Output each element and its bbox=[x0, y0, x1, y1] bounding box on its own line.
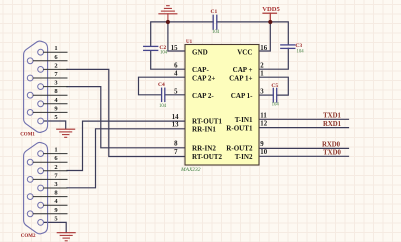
net label TXD0 bbox=[323, 149, 341, 156]
svg-text:T-IN1: T-IN1 bbox=[235, 116, 253, 124]
COM1 pin number 4 bbox=[54, 97, 58, 104]
svg-text:13: 13 bbox=[172, 122, 179, 129]
value C3 104 bbox=[297, 50, 305, 55]
wire U1 pin15 GND to top rail bbox=[168, 22, 185, 51]
COM2 pin number 2 bbox=[54, 164, 57, 171]
COM1 pin number 2 bbox=[54, 62, 57, 69]
COM1 pin number 8 bbox=[54, 88, 58, 95]
wire COM1 pin5 to ground bbox=[44, 121, 66, 129]
svg-text:6: 6 bbox=[174, 63, 178, 70]
svg-text:VCC: VCC bbox=[237, 49, 252, 57]
svg-text:TXD0: TXD0 bbox=[323, 149, 341, 156]
svg-text:VDD5: VDD5 bbox=[262, 6, 280, 13]
COM2 pin number 1 bbox=[54, 147, 57, 154]
COM2 pin number 6 bbox=[54, 155, 58, 162]
U1 pin name RR-IN1 bbox=[192, 125, 216, 133]
wire U1 pin4 to C4 bbox=[139, 77, 186, 95]
net label RXD0 bbox=[322, 142, 341, 149]
U1 pin name R-OUT1 bbox=[226, 124, 253, 132]
COM1 pin number 5 bbox=[54, 114, 58, 121]
capacitor C3 plates bbox=[281, 45, 295, 49]
svg-text:5: 5 bbox=[174, 88, 178, 95]
COM1 pin number 1 bbox=[54, 45, 57, 52]
svg-text:RR-IN1: RR-IN1 bbox=[192, 125, 216, 133]
U1 part name MAX232 bbox=[180, 167, 201, 173]
U1 pin name GND bbox=[192, 49, 208, 57]
svg-text:CAP 2+: CAP 2+ bbox=[192, 75, 215, 83]
COM1 pin number 7 bbox=[54, 71, 58, 78]
svg-text:RT-OUT2: RT-OUT2 bbox=[192, 153, 223, 161]
wire U1 pin16 VCC to rail bbox=[259, 22, 270, 51]
U1 pin name R-OUT2 bbox=[226, 145, 253, 153]
svg-text:104: 104 bbox=[212, 30, 220, 35]
svg-text:104: 104 bbox=[159, 104, 167, 109]
wire COM1 pin3 to U1 pin8 bbox=[67, 87, 185, 148]
svg-text:CAP 1+: CAP 1+ bbox=[229, 75, 252, 83]
U1 pin number 3 bbox=[260, 88, 264, 95]
svg-text:9: 9 bbox=[260, 141, 264, 148]
svg-text:U1: U1 bbox=[186, 40, 193, 45]
connector COM1 pin circles bbox=[27, 49, 43, 124]
U1 pin name T-IN2 bbox=[235, 153, 253, 161]
svg-text:C4: C4 bbox=[158, 82, 165, 88]
wire C2 to U1 pin6 bbox=[151, 51, 185, 70]
U1 pin name RR-IN2 bbox=[192, 145, 216, 153]
net label RXD1 bbox=[323, 121, 342, 128]
connector COM2 pin circles bbox=[27, 151, 43, 226]
U1 pin name VCC bbox=[237, 49, 252, 57]
COM2 pin number 3 bbox=[54, 181, 58, 188]
U1 pin number 13 bbox=[172, 122, 179, 129]
U1 pin number 2 bbox=[260, 63, 264, 70]
svg-text:14: 14 bbox=[172, 114, 179, 121]
svg-text:RXD1: RXD1 bbox=[323, 121, 342, 128]
U1 pin name CAP + bbox=[233, 66, 253, 74]
svg-text:CAP +: CAP + bbox=[233, 66, 253, 74]
wire GND rail left segment bbox=[151, 22, 214, 46]
wire U1 pin12 R-OUT1 to RXD1 bbox=[259, 127, 349, 129]
svg-text:CAP 1-: CAP 1- bbox=[231, 92, 253, 100]
U1 pin name CAP 1+ bbox=[229, 75, 252, 83]
COM2 pin number 7 bbox=[54, 172, 58, 179]
U1 pin name CAP 2+ bbox=[192, 75, 215, 83]
wire U1 pin9 R-OUT2 to RXD0 bbox=[259, 147, 349, 149]
U1 pin name CAP 2- bbox=[192, 92, 214, 100]
wire COM1 pin2 to U1 pin7 bbox=[67, 69, 185, 156]
net label TXD1 bbox=[323, 112, 341, 119]
COM2 pin number 4 bbox=[54, 198, 58, 205]
wire COM2 pin5 to ground bbox=[44, 222, 66, 232]
ground COM2 bbox=[57, 233, 75, 241]
svg-text:1: 1 bbox=[260, 71, 264, 78]
capacitor C1 plates bbox=[213, 15, 217, 29]
label C3 bbox=[295, 43, 302, 49]
U1 pin number 8 bbox=[174, 141, 178, 148]
wire U1 pin10 T-IN2 to TXD0 bbox=[259, 155, 349, 157]
wire U1 pin11 T-IN1 to TXD1 bbox=[259, 118, 349, 120]
power VDD5 bar bbox=[263, 13, 277, 22]
U1 pin number 6 bbox=[174, 63, 178, 70]
junction node VDD5 rail bbox=[268, 20, 272, 24]
U1 pin name RT-OUT2 bbox=[192, 153, 223, 161]
svg-text:C1: C1 bbox=[211, 9, 218, 15]
svg-text:GND: GND bbox=[192, 49, 208, 57]
svg-text:R-OUT1: R-OUT1 bbox=[226, 124, 253, 132]
connector COM1 DB9 outline bbox=[24, 41, 48, 132]
svg-text:8: 8 bbox=[174, 141, 178, 148]
U1 pin number 16 bbox=[260, 45, 267, 52]
junction node GND rail bbox=[166, 20, 170, 24]
label COM2 bbox=[21, 234, 36, 239]
capacitor C5 plates bbox=[273, 88, 276, 102]
U1 pin number 10 bbox=[260, 149, 267, 156]
U1 designator bbox=[186, 40, 193, 45]
label C5 bbox=[271, 83, 278, 89]
value C4 104 bbox=[159, 104, 167, 109]
value C2 104 bbox=[160, 50, 168, 55]
COM2 pin number 5 bbox=[54, 215, 58, 222]
svg-text:4: 4 bbox=[174, 71, 178, 78]
connector COM2 DB9 outline bbox=[24, 142, 48, 233]
COM2 pin number 9 bbox=[54, 207, 58, 214]
svg-text:MAX232: MAX232 bbox=[180, 167, 201, 173]
svg-text:C3: C3 bbox=[295, 43, 302, 49]
svg-text:2: 2 bbox=[260, 63, 264, 70]
svg-text:16: 16 bbox=[260, 45, 267, 52]
svg-text:R-OUT2: R-OUT2 bbox=[226, 145, 253, 153]
U1 pin number 5 bbox=[174, 88, 178, 95]
connector COM1 pin stubs bbox=[33, 52, 67, 112]
capacitor C4 plates bbox=[162, 88, 165, 101]
U1 pin number 11 bbox=[260, 113, 267, 120]
svg-text:104: 104 bbox=[160, 50, 168, 55]
svg-text:T-IN2: T-IN2 bbox=[235, 153, 253, 161]
wire C5 to U1 pin3 bbox=[259, 94, 273, 96]
power VDD5 label bbox=[262, 6, 280, 13]
label C2 bbox=[159, 45, 166, 51]
svg-text:TXD1: TXD1 bbox=[323, 112, 341, 119]
svg-text:RXD0: RXD0 bbox=[322, 142, 341, 149]
svg-text:CAP 2-: CAP 2- bbox=[192, 92, 214, 100]
svg-text:12: 12 bbox=[260, 121, 267, 128]
U1 pin number 14 bbox=[172, 114, 179, 121]
ground COM1 bbox=[57, 129, 75, 137]
svg-text:1: 1 bbox=[54, 45, 57, 52]
ground top (inverted earth) bbox=[159, 6, 177, 22]
svg-text:104: 104 bbox=[272, 103, 280, 108]
U1 pin number 9 bbox=[260, 141, 264, 148]
wire C3 to U1 pin2 bbox=[259, 48, 288, 69]
value C1 104 bbox=[212, 30, 220, 35]
svg-text:11: 11 bbox=[260, 113, 267, 120]
COM1 pin number 9 bbox=[54, 105, 58, 112]
U1 pin name CAP- bbox=[192, 66, 209, 74]
svg-text:CAP-: CAP- bbox=[192, 66, 209, 74]
label C1 bbox=[211, 9, 218, 15]
svg-text:15: 15 bbox=[171, 45, 178, 52]
wire U1 pin14 to COM2 pin2 bbox=[67, 121, 185, 170]
svg-text:COM2: COM2 bbox=[21, 234, 36, 239]
connector COM2 pin stubs bbox=[33, 154, 67, 214]
label C4 bbox=[158, 82, 165, 88]
U1 pin number 4 bbox=[174, 71, 178, 78]
svg-text:2: 2 bbox=[54, 164, 57, 171]
wire C4 to U1 pin5 bbox=[165, 94, 185, 96]
IC U1 MAX232 body bbox=[185, 45, 259, 166]
COM2 pin number 8 bbox=[54, 190, 58, 197]
svg-text:RR-IN2: RR-IN2 bbox=[192, 145, 216, 153]
U1 pin number 12 bbox=[260, 121, 267, 128]
svg-text:COM1: COM1 bbox=[20, 133, 35, 138]
svg-text:7: 7 bbox=[174, 149, 178, 156]
svg-text:2: 2 bbox=[54, 62, 57, 69]
U1 pin number 1 bbox=[260, 71, 264, 78]
svg-text:104: 104 bbox=[297, 50, 305, 55]
capacitor C2 plates bbox=[144, 46, 158, 50]
svg-text:1: 1 bbox=[54, 147, 57, 154]
wire VDD5 rail right segment bbox=[217, 22, 288, 45]
COM1 pin number 6 bbox=[54, 54, 58, 61]
label COM1 bbox=[20, 133, 35, 138]
wire U1 pin13 to COM2 pin3 bbox=[67, 129, 185, 188]
U1 pin name RT-OUT1 bbox=[192, 118, 223, 126]
COM1 pin number 3 bbox=[54, 80, 58, 87]
U1 pin number 15 bbox=[171, 45, 178, 52]
U1 pin name CAP 1- bbox=[231, 92, 253, 100]
svg-text:3: 3 bbox=[260, 88, 264, 95]
svg-text:10: 10 bbox=[260, 149, 267, 156]
wire U1 pin1 to C5 bbox=[259, 77, 288, 95]
U1 pin number 7 bbox=[174, 149, 178, 156]
value C5 104 bbox=[272, 103, 280, 108]
svg-text:C5: C5 bbox=[271, 83, 278, 89]
U1 pin name T-IN1 bbox=[235, 116, 253, 124]
